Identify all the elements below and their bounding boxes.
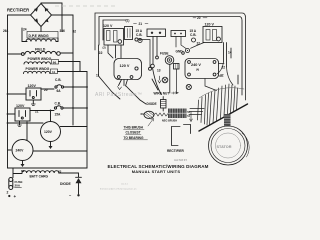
svg-text:13: 13 — [157, 69, 161, 73]
svg-text:THIS BRUSH: THIS BRUSH — [124, 126, 144, 130]
wire diode down — [78, 183, 80, 194]
wire left bus — [7, 15, 9, 168]
svg-text:120 V: 120 V — [120, 64, 130, 68]
ground arrows center — [158, 76, 161, 83]
wire 20 from J1 — [41, 88, 54, 90]
svg-text:NEG BRUSH: NEG BRUSH — [162, 119, 177, 122]
stator circle — [209, 126, 248, 165]
wire bus to J4 — [8, 149, 12, 151]
svg-text:CLOSEST: CLOSEST — [126, 131, 141, 135]
battery charge coil L5 — [22, 171, 59, 173]
svg-text:C.B.: C.B. — [190, 33, 196, 37]
svg-text:22: 22 — [99, 51, 103, 55]
svg-text:DIODE: DIODE — [60, 182, 71, 186]
svg-text:C.B.: C.B. — [55, 78, 61, 82]
svg-text:DIODE: DIODE — [147, 102, 157, 106]
wire 21 from J2 — [30, 110, 54, 112]
svg-text:6A: 6A — [57, 89, 62, 93]
svg-text:20: 20 — [44, 88, 48, 92]
svg-text:24: 24 — [23, 28, 27, 32]
svg-text:WIRE NUT: WIRE NUT — [154, 92, 170, 96]
ground J3 — [50, 142, 52, 147]
wire bottom bus — [8, 167, 88, 169]
field left terminal circle — [21, 53, 24, 56]
svg-text:63: 63 — [141, 112, 145, 116]
wire bus to J1 — [8, 93, 27, 95]
svg-text:the best under LOTs for two pr: the best under LOTs for two prices on — [100, 188, 137, 191]
wire batt coil right to diode D2 — [59, 173, 79, 177]
wire power1 to bus 80 — [59, 62, 81, 72]
terminal strip — [168, 109, 187, 119]
svg-text:120V: 120V — [44, 130, 53, 134]
wire CB1 to bus — [64, 86, 87, 88]
panel outline inner — [103, 20, 126, 40]
wire rectifier left vertex to left bus — [8, 14, 31, 16]
svg-text:RECTIFIER: RECTIFIER — [7, 8, 29, 13]
svg-text:62: 62 — [73, 30, 77, 34]
svg-text:264: 264 — [3, 29, 9, 33]
brush block into stator — [224, 114, 231, 127]
power winding 2 coil L4 — [24, 71, 50, 73]
wire bus to J2 — [8, 113, 16, 115]
field coil L2 — [25, 51, 56, 54]
svg-text:RECTIFIER: RECTIFIER — [167, 149, 185, 153]
receptacle strip P4 — [147, 29, 166, 37]
slanted wires from panel center — [99, 76, 159, 104]
svg-text:ARI PartStream™: ARI PartStream™ — [95, 92, 143, 98]
DPE winding box — [27, 32, 58, 39]
wire CB2 to bus — [63, 107, 87, 109]
svg-text:66: 66 — [53, 60, 57, 64]
svg-text:86: 86 — [21, 169, 25, 173]
wire DPE right lead — [56, 38, 58, 42]
svg-text:(2): (2) — [103, 46, 106, 50]
faint fold line — [55, 5, 118, 7]
svg-text:120V: 120V — [16, 104, 25, 108]
thick diagonal — [199, 104, 248, 131]
svg-text:20A: 20A — [15, 184, 21, 188]
svg-text:D.P.E WNDG: D.P.E WNDG — [29, 34, 49, 38]
power winding 2 terminal box 11 — [51, 69, 58, 74]
resistor wire zigzag — [154, 113, 168, 116]
wire J3 top — [50, 110, 52, 122]
panel outline outer — [95, 13, 246, 100]
duplex receptacle P3 rounded — [114, 59, 142, 80]
svg-text:C.B.: C.B. — [136, 33, 142, 37]
wire rectifier right vertex to bus 62 — [52, 15, 74, 125]
receptacle J1 box — [26, 88, 41, 100]
wire J4 top — [26, 122, 28, 141]
wire DPE left lead — [22, 28, 27, 42]
wire J3 right — [60, 126, 87, 128]
receptacle P2 box — [104, 29, 124, 46]
svg-text:22: 22 — [220, 74, 224, 78]
svg-text:15A: 15A — [55, 113, 62, 117]
power winding 1 terminal box 66 — [52, 60, 59, 65]
svg-text:+: + — [14, 194, 17, 199]
receptacle J2 slots — [19, 111, 26, 117]
wires right drop — [224, 43, 227, 68]
wire bus to J3 — [8, 122, 44, 124]
svg-text:11: 11 — [52, 70, 56, 74]
svg-text:POWER WNDG: POWER WNDG — [28, 57, 52, 61]
svg-text:rev 4.1: rev 4.1 — [121, 183, 128, 186]
svg-text:MANUAL START UNITS: MANUAL START UNITS — [132, 169, 181, 174]
wires into bundle — [189, 109, 204, 115]
field right terminal circle — [57, 52, 61, 56]
svg-text:120V: 120V — [28, 84, 37, 88]
screw terminal crossed — [162, 77, 168, 83]
svg-text:21: 21 — [139, 22, 143, 26]
ground J4 — [22, 161, 24, 165]
wire rectifier top vertex to bus 336 — [41, 3, 62, 32]
brush holder oval — [144, 111, 154, 118]
wire arrow 63 — [190, 112, 193, 122]
P3 ground leads — [119, 80, 128, 87]
receptacle strip P5 — [171, 31, 186, 37]
wire fan to stator — [198, 84, 238, 125]
wires P2 down — [108, 45, 121, 58]
240V receptacle P6 — [185, 59, 219, 79]
svg-text:120 V: 120 V — [103, 24, 113, 28]
wire left panel drop — [98, 45, 100, 76]
rectifier BR1 diodes — [34, 8, 49, 22]
svg-text:FUSE: FUSE — [160, 52, 169, 56]
svg-text:240V: 240V — [16, 149, 25, 153]
wire field left to bus — [8, 53, 22, 55]
wire field to bus 62 — [60, 52, 73, 54]
junction dot — [72, 86, 74, 88]
svg-text:336: 336 — [60, 29, 66, 33]
receptacle J2 box — [15, 108, 30, 121]
svg-text:BATT CHRG: BATT CHRG — [30, 175, 49, 179]
svg-text:ALLTLR KY: ALLTLR KY — [174, 159, 188, 162]
edge receptacle P1 — [125, 27, 133, 40]
terminal block 56 — [174, 64, 180, 70]
svg-text:120 V: 120 V — [205, 23, 215, 27]
receptacle J2 ground stem — [19, 121, 21, 125]
wires under top receptacles — [153, 37, 157, 65]
svg-text:FIELD: FIELD — [35, 48, 46, 52]
receptacle J1 slots — [30, 91, 37, 97]
rectifier pictorial outline — [172, 125, 191, 146]
power winding 1 coil L3 — [24, 62, 50, 64]
svg-text:21: 21 — [35, 110, 39, 114]
wire rectifier bottom vertex — [40, 27, 42, 32]
svg-text:20: 20 — [197, 16, 201, 20]
panel outline middle — [99, 17, 242, 96]
wire power2 to bus 87 — [58, 72, 88, 169]
svg-text:(4): (4) — [196, 68, 199, 72]
twistlock receptacle J4 circle 240V — [12, 140, 33, 161]
svg-text:2: 2 — [7, 191, 9, 195]
wire J4 right — [33, 150, 87, 152]
svg-text:POWER WNDG: POWER WNDG — [26, 67, 50, 71]
DPE winding coil L1 — [26, 39, 56, 42]
fuse F1 — [9, 178, 13, 182]
wire batt coil left to fuse — [13, 168, 22, 178]
svg-text:240 V: 240 V — [191, 63, 201, 67]
svg-text:STATOR: STATOR — [217, 145, 232, 149]
svg-text:C.B.: C.B. — [55, 102, 61, 106]
svg-text:(1): (1) — [126, 19, 130, 23]
receptacle J1 ground stem — [32, 100, 34, 104]
twistlock receptacle J3 circle 120V — [41, 122, 61, 142]
P6 ground screw — [186, 84, 191, 89]
svg-text:TO BEARING: TO BEARING — [124, 136, 144, 140]
rectifier BR1 bridge diamond — [31, 4, 52, 27]
